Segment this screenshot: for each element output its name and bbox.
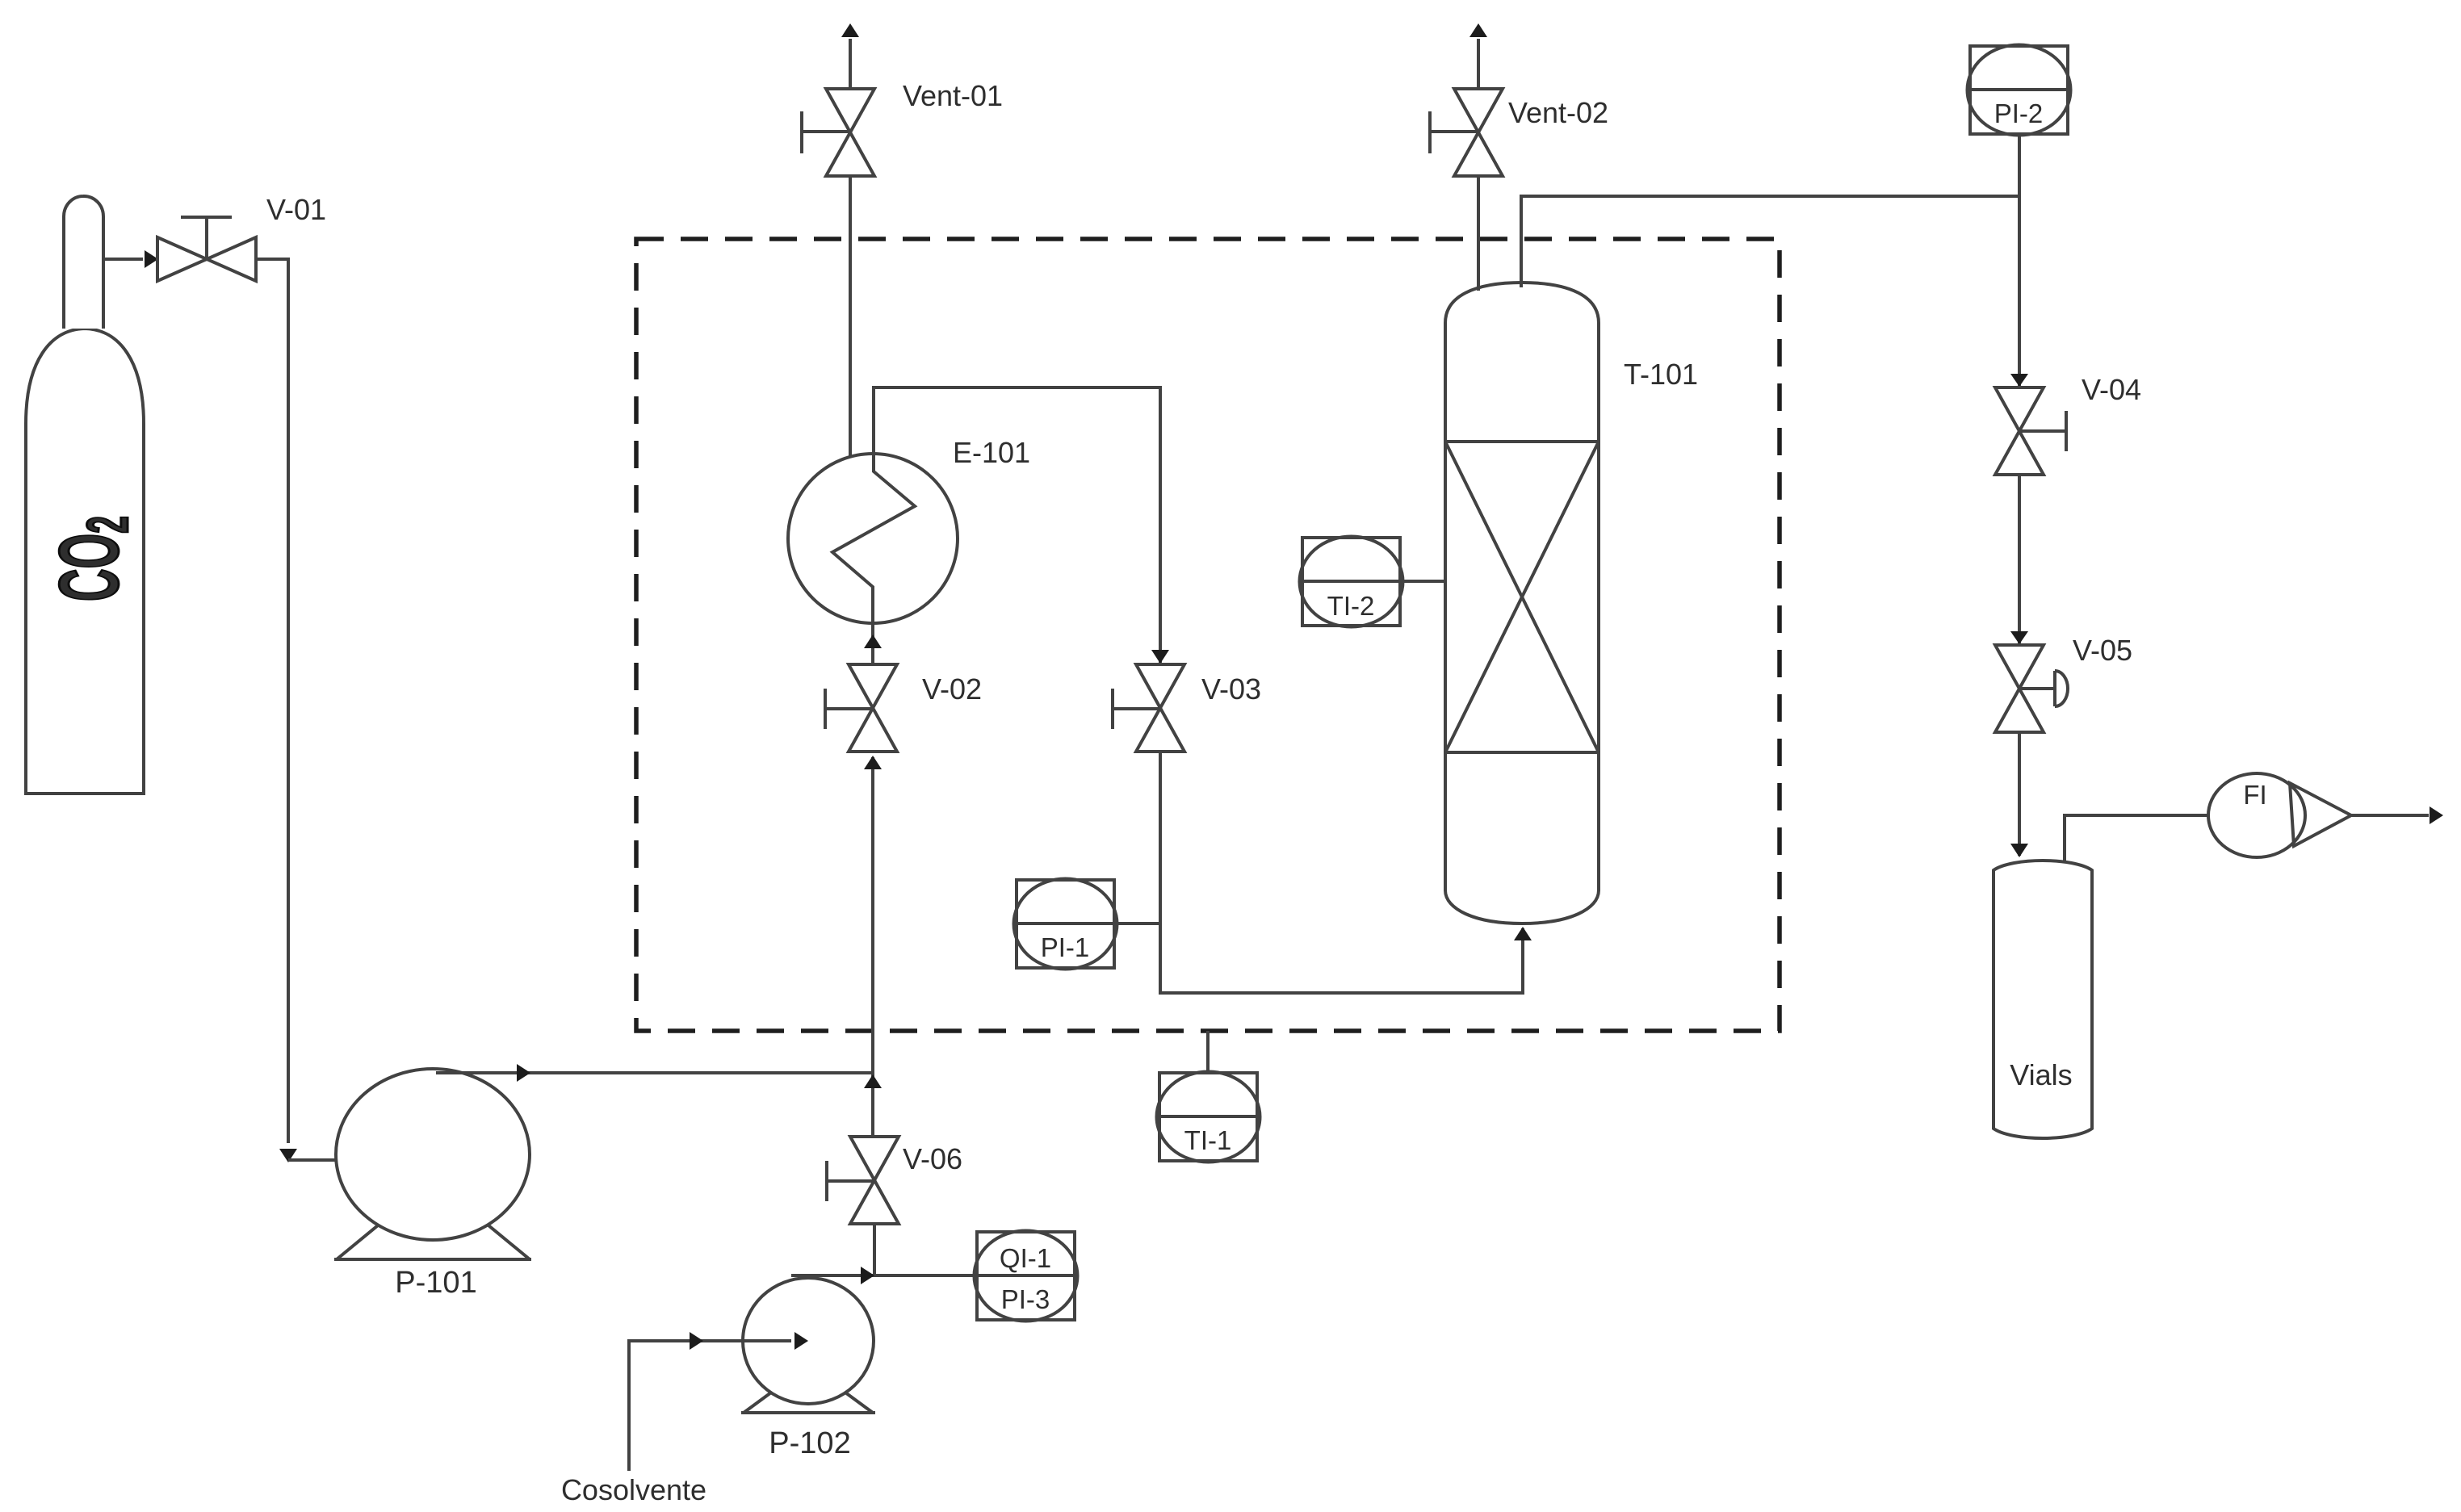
instrument PI-1 — [1017, 880, 1114, 968]
flow indicator FI — [2208, 773, 2305, 857]
arrowhead up into V-02 — [864, 756, 882, 769]
wire: V-01 to down corner — [256, 259, 288, 1143]
instrument TI-1 — [1159, 1073, 1257, 1161]
wire: V-05 to Vials — [2018, 732, 2021, 856]
E-101 coil zigzag — [832, 454, 915, 623]
wire: T-101 top product line to PI-2 drop — [1521, 196, 2019, 287]
wire: corner to P-101 center — [288, 1158, 413, 1162]
svg-text:PI-3: PI-3 — [1001, 1284, 1050, 1314]
svg-text:E-101: E-101 — [953, 436, 1030, 469]
wire: E-101 outlet to V-03 — [874, 387, 1160, 664]
wire: FI outlet — [2351, 814, 2429, 817]
svg-text:V-02: V-02 — [922, 672, 982, 706]
wire: Cosolvente feed to P-102 — [629, 1341, 791, 1471]
wire: oven border to TI-1 — [1206, 1031, 1210, 1073]
svg-text:Vent-02: Vent-02 — [1508, 96, 1608, 129]
svg-text:QI-1: QI-1 — [1000, 1243, 1051, 1273]
CO2 cylinder body — [26, 329, 144, 794]
wire: T-101 to Vent-02 — [1477, 176, 1480, 291]
wire: P-101 discharge to main line junction — [436, 1071, 873, 1074]
pump P-101 base — [337, 1225, 378, 1259]
wire: Vials to FI — [2065, 815, 2209, 861]
arrowhead on discharge — [517, 1064, 530, 1082]
svg-text:V-04: V-04 — [2082, 373, 2141, 406]
valve V-01 — [157, 237, 207, 281]
arrowhead into V-01 — [145, 250, 158, 268]
svg-text:T-101: T-101 — [1624, 358, 1698, 391]
instrument QI-1 / PI-3 — [977, 1232, 1075, 1320]
arrowhead mid cosolvente — [690, 1332, 703, 1350]
valve V-06 — [850, 1137, 899, 1180]
wire: PI-2 down to V-04 — [2018, 134, 2021, 386]
valve V-04 — [1995, 387, 2044, 431]
svg-text:FI: FI — [2243, 780, 2266, 810]
wire: V-02 to E-101 bottom — [871, 623, 874, 665]
column T-101 — [1445, 283, 1599, 924]
arrowhead down into Vials — [2010, 844, 2028, 857]
wire: Vent-01 outlet — [849, 39, 852, 89]
wire: cylinder to V-01 — [103, 258, 143, 261]
pump P-102 base — [744, 1393, 771, 1413]
valve V-05 — [1995, 645, 2044, 689]
valve V-03 — [1136, 664, 1184, 708]
wire: V-06 to bottom junction — [873, 1224, 876, 1275]
CO2 cylinder neck — [64, 196, 103, 329]
wire: PI-1 to V-03 line — [1114, 922, 1160, 925]
wire: P-102 discharge line to QI-1 — [791, 1274, 977, 1277]
arrowhead right at V-06 junction — [861, 1267, 874, 1284]
wire: main vertical V-06 to V-02 — [871, 757, 874, 1138]
valve Vent-01 — [826, 89, 874, 132]
arrowhead down into V-04 — [2010, 374, 2028, 387]
arrowhead up into T-101 — [1514, 927, 1532, 940]
heat exchanger E-101 — [788, 454, 958, 623]
arrowhead down into V-05 — [2010, 631, 2028, 644]
wire: TI-2 to T-101 — [1400, 580, 1445, 583]
instrument PI-2 — [1970, 46, 2068, 134]
svg-text:P-101: P-101 — [395, 1266, 476, 1300]
svg-text:Vials: Vials — [2010, 1058, 2072, 1091]
valve Vent-02 — [1454, 89, 1503, 132]
wire: E-101 to Vent-01 — [849, 176, 852, 457]
svg-text:Cosolvente: Cosolvente — [561, 1473, 706, 1506]
svg-text:Vent-01: Vent-01 — [903, 79, 1003, 112]
wire: V-04 to V-05 — [2018, 475, 2021, 643]
arrowhead down into V-03 — [1151, 650, 1169, 664]
svg-text:PI-2: PI-2 — [1994, 98, 2044, 128]
arrowhead vent-01 out — [841, 23, 859, 37]
arrowhead up at junction — [864, 1074, 882, 1088]
svg-text:V-03: V-03 — [1201, 672, 1261, 706]
svg-text:V-01: V-01 — [266, 193, 326, 226]
valve V-02 — [849, 664, 897, 708]
arrowhead into P-102 center — [794, 1332, 808, 1350]
svg-text:PI-1: PI-1 — [1041, 932, 1090, 962]
svg-text:P-102: P-102 — [769, 1426, 850, 1460]
svg-text:TI-1: TI-1 — [1184, 1125, 1232, 1155]
svg-text:TI-2: TI-2 — [1327, 591, 1375, 621]
T-101 packing section — [1445, 440, 1599, 443]
arrowhead into P-101 center — [417, 1151, 430, 1169]
arrowhead FI out — [2430, 806, 2443, 824]
svg-text:V-06: V-06 — [903, 1142, 962, 1175]
svg-text:V-05: V-05 — [2073, 634, 2132, 667]
arrowhead up into E-101 — [864, 635, 882, 648]
wire: V-03 down and to T-101 bottom — [1160, 752, 1523, 993]
arrowhead down at P-101 feed corner — [279, 1149, 297, 1162]
pump P-102 — [743, 1278, 874, 1404]
instrument TI-2 — [1302, 538, 1400, 626]
oven dashed enclosure — [636, 239, 1780, 1031]
pump P-101 — [336, 1069, 530, 1240]
vessel Vials — [1994, 861, 2092, 1138]
wire: Vent-02 outlet — [1477, 39, 1480, 89]
arrowhead vent-02 out — [1469, 23, 1487, 37]
